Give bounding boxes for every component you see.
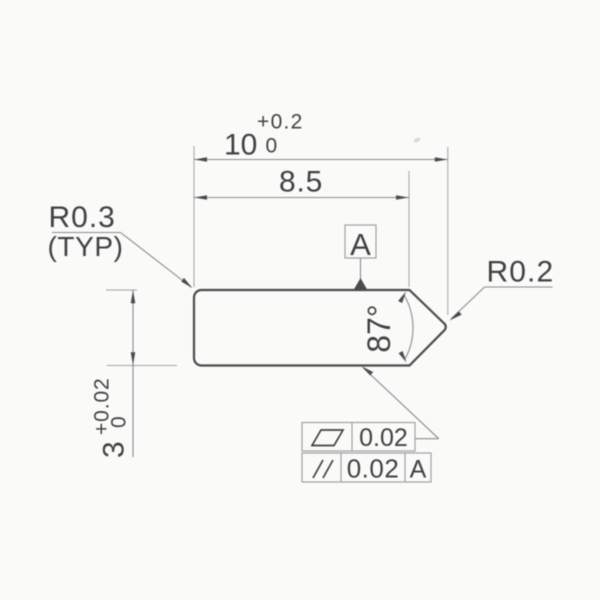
extension line right of 10 dim	[447, 147, 449, 315]
angle arc arrow bottom	[399, 351, 407, 363]
arrow FCF leader	[362, 366, 374, 375]
leader R0.3 horizontal	[52, 232, 121, 234]
dimension line 3 vertical	[132, 291, 134, 458]
leader R0.2 horizontal	[485, 286, 553, 288]
parallelism frame divider 1	[340, 453, 342, 482]
dimension text 3 rotated	[91, 377, 131, 458]
arrow right of 10 dim	[435, 157, 448, 162]
svg-text:A: A	[350, 227, 371, 262]
leader R0.2 diagonal	[451, 287, 485, 319]
arrow left of 8.5 dim	[194, 195, 207, 200]
parallelism frame divider 2	[404, 453, 406, 482]
datum stem	[360, 258, 362, 279]
arrow R0.2 leader	[450, 311, 462, 320]
svg-text:(TYP): (TYP)	[48, 231, 124, 262]
svg-text:3: 3	[98, 441, 131, 458]
part outline	[194, 290, 446, 366]
svg-text:0: 0	[266, 135, 278, 158]
extension line bottom of 3 dim	[107, 365, 177, 367]
svg-text:10: 10	[224, 129, 257, 162]
dimension line 10	[194, 159, 448, 161]
parallelism symbol	[313, 460, 323, 478]
extension line left of 10 dim	[193, 146, 195, 287]
angle arc arrow top	[398, 292, 406, 304]
svg-text:0: 0	[108, 416, 131, 428]
svg-text:87°: 87°	[361, 304, 397, 352]
extension line top of 3 dim	[106, 289, 137, 291]
flatness frame divider	[351, 423, 353, 452]
svg-text:A: A	[410, 456, 427, 484]
parallelism frame	[302, 453, 431, 482]
svg-text:R0.2: R0.2	[487, 256, 555, 289]
arrow right of 8.5 dim	[396, 195, 409, 200]
flatness symbol parallelogram	[312, 430, 343, 446]
flatness frame	[302, 423, 415, 452]
dimension line 8.5	[194, 197, 409, 199]
datum A box	[345, 225, 376, 258]
svg-text:0.02: 0.02	[359, 424, 408, 452]
svg-text:+0.2: +0.2	[257, 111, 304, 134]
datum triangle	[354, 278, 367, 289]
arrow R0.3 leader	[181, 278, 192, 288]
svg-text:0.02: 0.02	[347, 454, 400, 484]
arrow left of 10 dim	[194, 157, 207, 162]
angle arc 87	[404, 295, 413, 359]
leader FCF horizontal	[415, 438, 439, 440]
leader R0.3 diagonal	[121, 233, 192, 288]
svg-text:8.5: 8.5	[279, 166, 323, 199]
svg-text:R0.3: R0.3	[49, 201, 116, 234]
extension line right of 8.5 dim	[408, 171, 410, 287]
leader FCF diagonal	[363, 368, 439, 439]
arrow top of 3 dim	[131, 291, 136, 304]
arrow bottom of 3 dim	[131, 352, 136, 365]
scan smudge artifact	[413, 137, 421, 144]
